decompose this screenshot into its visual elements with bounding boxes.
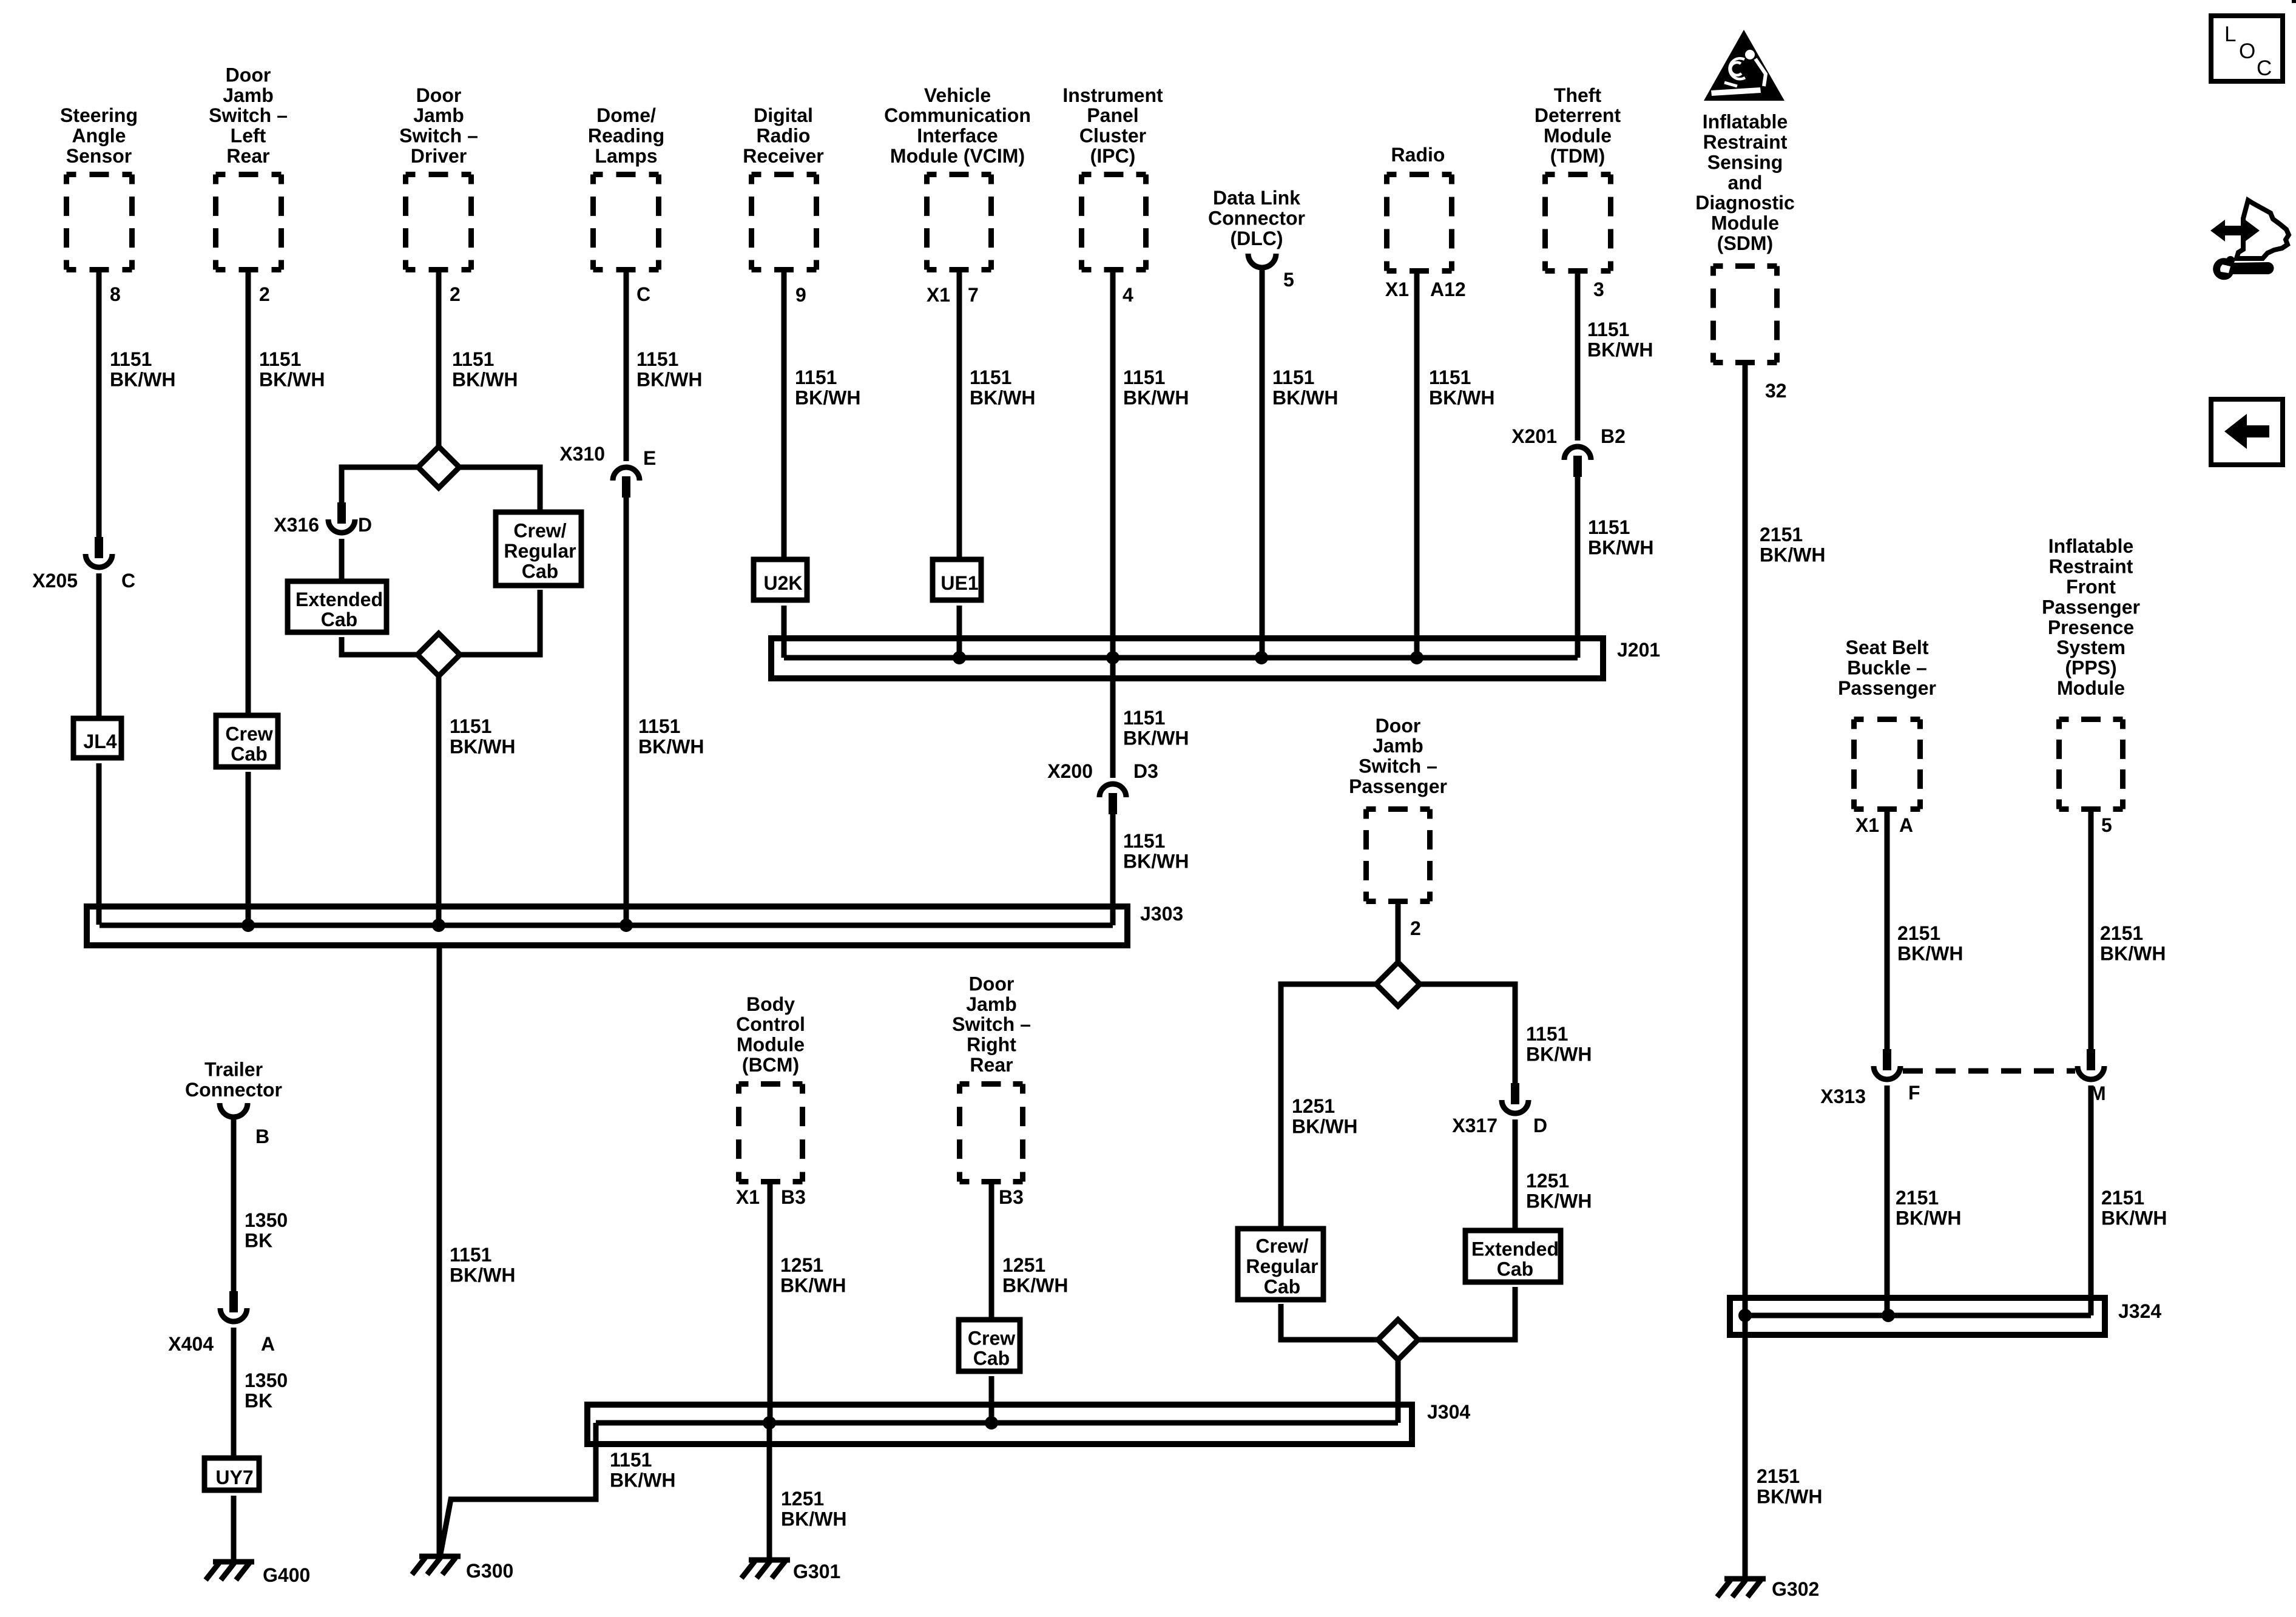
svg-text:X205: X205: [32, 570, 78, 592]
wire right rear to crew cab 2: [989, 1184, 994, 1319]
svg-text:1251: 1251: [780, 1254, 823, 1276]
wire PPS to X313 M: [2088, 812, 2094, 1049]
svg-text:L: L: [2224, 22, 2236, 46]
svg-text:2: 2: [1410, 917, 1421, 939]
svg-text:C: C: [121, 570, 135, 592]
wire crew/regular cab 2 to merge diamond: [1281, 1304, 1378, 1340]
svg-text:C: C: [636, 283, 650, 305]
svg-text:Passenger: Passenger: [1349, 775, 1447, 797]
svg-text:BK/WH: BK/WH: [259, 368, 325, 390]
svg-text:BK/WH: BK/WH: [2101, 1207, 2167, 1229]
ground bus J324: [1730, 1298, 2105, 1335]
svg-text:G302: G302: [1772, 1578, 1819, 1600]
svg-text:Steering: Steering: [60, 104, 138, 126]
svg-text:G400: G400: [263, 1564, 310, 1586]
wire X310 to J303: [624, 498, 629, 925]
wire left rear to crew cab box: [246, 272, 251, 715]
junction J201 DLC: [1255, 651, 1268, 664]
svg-text:Jamb: Jamb: [223, 84, 274, 106]
wire J304 left end to G300: [441, 1423, 596, 1554]
svg-text:Vehicle: Vehicle: [924, 84, 991, 106]
BCM title: [736, 993, 805, 1076]
IPC title: [1062, 84, 1163, 167]
svg-text:Jamb: Jamb: [1373, 735, 1423, 757]
circuit 2151 BK/WH PPS lower: [2101, 1187, 2167, 1229]
wire dome lamps to X310: [624, 272, 629, 461]
svg-text:Diagnostic: Diagnostic: [1695, 192, 1795, 214]
svg-text:Cab: Cab: [1264, 1275, 1300, 1297]
svg-text:O: O: [2239, 39, 2255, 63]
svg-text:X316: X316: [274, 514, 319, 536]
junction J303 dome: [620, 919, 633, 932]
wire lower diamond to J303: [436, 676, 442, 925]
svg-text:X310: X310: [559, 443, 605, 465]
circuit 1151 BK/WH driver: [452, 348, 518, 390]
svg-text:Seat Belt: Seat Belt: [1846, 636, 1929, 658]
wire DLC to J201: [1260, 269, 1265, 658]
door jamb switch right rear box: [960, 1084, 1023, 1182]
option merge diamond passenger: [1378, 1320, 1418, 1360]
wire BCM to J304: [768, 1184, 773, 1423]
PPS title: [2042, 535, 2140, 699]
circuit 2151 BK/WH seat belt lower: [1896, 1187, 1961, 1229]
svg-text:1151: 1151: [970, 366, 1011, 388]
svg-text:1151: 1151: [1587, 319, 1629, 340]
svg-text:BK/WH: BK/WH: [610, 1469, 675, 1491]
wire TDM to X201: [1575, 274, 1581, 441]
circuit 2151 BK/WH PPS: [2100, 922, 2166, 964]
VCIM box: [927, 175, 991, 270]
BCM box: [739, 1084, 803, 1182]
steering angle sensor title: [60, 104, 138, 167]
svg-text:F: F: [1908, 1082, 1920, 1104]
svg-text:2: 2: [450, 283, 461, 305]
svg-text:BK: BK: [245, 1389, 272, 1411]
svg-text:Regular: Regular: [504, 540, 576, 562]
svg-text:1151: 1151: [110, 348, 152, 370]
svg-text:Crew/: Crew/: [513, 520, 566, 542]
option merge diamond lower: [417, 633, 460, 676]
svg-text:BK/WH: BK/WH: [1526, 1190, 1592, 1212]
circuit 1151 BK/WH digital radio: [795, 366, 860, 408]
ground bus J303: [87, 906, 1127, 945]
svg-text:Jamb: Jamb: [413, 104, 464, 126]
svg-text:Receiver: Receiver: [743, 145, 823, 167]
svg-text:BK/WH: BK/WH: [452, 368, 518, 390]
svg-text:Presence: Presence: [2048, 616, 2134, 638]
svg-text:Communication: Communication: [884, 104, 1031, 126]
option Extended Cab (passenger): [1465, 1230, 1561, 1282]
inline connector X313 M: [2078, 1049, 2104, 1079]
inline connector X200: [1099, 784, 1126, 814]
svg-text:Module: Module: [1544, 125, 1612, 147]
svg-text:Module: Module: [1711, 212, 1779, 234]
wire trailer to X404: [231, 1119, 237, 1291]
steering angle sensor connector box: [67, 175, 132, 270]
svg-text:Data Link: Data Link: [1213, 187, 1300, 209]
wire J201 to X200: [1110, 658, 1116, 778]
option Crew Cab (right rear): [959, 1320, 1020, 1371]
svg-text:J201: J201: [1617, 639, 1660, 661]
wire X404 to UY7: [231, 1328, 237, 1458]
svg-text:Switch –: Switch –: [1359, 755, 1437, 777]
svg-text:Deterrent: Deterrent: [1535, 104, 1621, 126]
ground G301: [741, 1560, 840, 1582]
svg-text:C: C: [2257, 56, 2272, 80]
svg-text:(PPS): (PPS): [2065, 657, 2116, 679]
svg-text:X1: X1: [736, 1186, 760, 1208]
IPC box: [1082, 175, 1146, 270]
svg-text:2151: 2151: [1757, 1465, 1800, 1487]
svg-text:1151: 1151: [636, 348, 678, 370]
circuit 1151 BK/WH below J201: [1123, 707, 1189, 749]
svg-text:Radio: Radio: [1391, 144, 1445, 166]
door jamb switch driver title: [399, 84, 478, 167]
circuit 1251 BK/WH to G301: [781, 1488, 846, 1530]
svg-text:Regular: Regular: [1246, 1255, 1318, 1277]
svg-text:UE1: UE1: [940, 572, 978, 594]
inline connector X404: [220, 1291, 247, 1322]
svg-text:BK/WH: BK/WH: [1123, 387, 1189, 408]
wire X313 M to J324: [2088, 1085, 2094, 1315]
wire X316 to extended cab: [339, 539, 345, 581]
wire driver to splice diamond: [436, 272, 442, 447]
svg-text:A: A: [1899, 814, 1913, 836]
seat belt buckle passenger box: [1854, 720, 1920, 809]
svg-text:BK/WH: BK/WH: [110, 368, 175, 390]
svg-text:(BCM): (BCM): [742, 1054, 799, 1076]
svg-text:Switch –: Switch –: [952, 1013, 1031, 1035]
svg-text:Switch –: Switch –: [399, 125, 478, 147]
svg-text:Crew/: Crew/: [1255, 1235, 1308, 1257]
svg-text:X200: X200: [1047, 760, 1093, 782]
DLC title: [1208, 187, 1305, 249]
junction J303 driver: [432, 919, 445, 932]
svg-text:Instrument: Instrument: [1062, 84, 1163, 106]
svg-text:BK/WH: BK/WH: [1292, 1115, 1357, 1137]
door jamb switch left rear title: [209, 64, 288, 167]
svg-text:B3: B3: [999, 1186, 1024, 1208]
svg-text:1151: 1151: [450, 715, 491, 737]
svg-text:(IPC): (IPC): [1090, 145, 1136, 167]
svg-text:Restraint: Restraint: [1703, 131, 1788, 153]
door jamb switch left rear box: [216, 175, 282, 270]
svg-text:A12: A12: [1430, 279, 1466, 300]
svg-text:Right: Right: [967, 1034, 1016, 1056]
svg-text:1151: 1151: [638, 715, 680, 737]
inline connector X317: [1502, 1083, 1528, 1113]
svg-text:X1: X1: [927, 284, 950, 306]
svg-text:3: 3: [1593, 279, 1604, 300]
svg-text:1151: 1151: [1123, 707, 1165, 729]
inline connector X205: [86, 537, 112, 567]
svg-text:1151: 1151: [1429, 366, 1471, 388]
inline connector X316: [328, 502, 355, 533]
svg-text:Angle: Angle: [72, 125, 126, 147]
circuit 1151 BK/WH DLC: [1272, 366, 1338, 408]
svg-text:Cab: Cab: [973, 1348, 1010, 1369]
svg-text:BK/WH: BK/WH: [1588, 536, 1653, 558]
svg-text:Buckle –: Buckle –: [1847, 657, 1927, 679]
option Extended Cab (driver): [288, 581, 387, 632]
svg-text:Jamb: Jamb: [966, 993, 1017, 1015]
svg-text:BK/WH: BK/WH: [780, 1274, 846, 1296]
wire extended cab to lower diamond: [342, 637, 417, 655]
svg-text:BK: BK: [245, 1229, 272, 1251]
svg-text:BK/WH: BK/WH: [1896, 1207, 1961, 1229]
svg-text:(DLC): (DLC): [1230, 228, 1283, 249]
wire X200 to J303: [1110, 812, 1116, 925]
dome reading lamps title: [588, 104, 664, 167]
wire X205 to JL4: [96, 573, 102, 718]
wire SDM to J324: [1743, 365, 1748, 1315]
svg-text:Cab: Cab: [522, 560, 558, 582]
wire diamond to crew/regular cab: [459, 467, 540, 511]
svg-text:BK/WH: BK/WH: [636, 368, 702, 390]
svg-text:Door: Door: [226, 64, 271, 86]
SRS warning triangle icon: [1704, 30, 1784, 101]
svg-text:1151: 1151: [452, 348, 494, 370]
TDM title: [1535, 84, 1621, 167]
svg-text:(SDM): (SDM): [1717, 232, 1773, 254]
junction J201 IPC: [1106, 651, 1119, 664]
svg-text:G300: G300: [466, 1560, 513, 1582]
ground bus J304: [587, 1405, 1412, 1444]
svg-text:Module: Module: [2057, 677, 2125, 699]
junction J304 crew cab: [985, 1416, 998, 1430]
svg-text:E: E: [643, 447, 656, 469]
circuit 1151 BK/WH steering: [110, 348, 175, 390]
svg-text:Cab: Cab: [321, 609, 357, 630]
svg-text:1251: 1251: [1002, 1254, 1045, 1276]
svg-text:BK/WH: BK/WH: [1123, 850, 1189, 872]
svg-text:Control: Control: [736, 1013, 805, 1035]
wire diamond to X316 branch: [342, 467, 418, 502]
svg-text:Switch –: Switch –: [209, 104, 288, 126]
wire SDM ground leg to G302: [1743, 1315, 1748, 1579]
svg-text:Rear: Rear: [970, 1054, 1013, 1076]
svg-text:UY7: UY7: [215, 1467, 253, 1488]
wire extended cab 2 to merge diamond: [1418, 1287, 1515, 1340]
svg-text:X404: X404: [168, 1333, 214, 1355]
dome reading lamps box: [593, 175, 659, 270]
svg-text:Driver: Driver: [411, 145, 467, 167]
wire diamond to X317: [1420, 984, 1515, 1083]
svg-text:J303: J303: [1140, 903, 1183, 925]
wire radio to J201: [1414, 274, 1420, 658]
junction J201 VCIM: [953, 651, 966, 664]
svg-text:Passenger: Passenger: [1838, 677, 1936, 699]
digital radio receiver title: [743, 104, 823, 167]
wire X317 to extended cab 2: [1513, 1119, 1518, 1230]
svg-text:BK/WH: BK/WH: [1587, 339, 1653, 360]
svg-text:Door: Door: [969, 973, 1015, 994]
svg-text:1151: 1151: [610, 1449, 652, 1471]
svg-text:2151: 2151: [1760, 524, 1803, 545]
option split diamond passenger: [1376, 962, 1420, 1006]
wire diamond to crew/regular cab 2: [1281, 984, 1376, 1227]
svg-text:Body: Body: [746, 993, 795, 1015]
circuit 1251 BK/WH BCM: [780, 1254, 846, 1296]
svg-text:1151: 1151: [1272, 366, 1314, 388]
svg-text:J324: J324: [2118, 1300, 2161, 1322]
svg-text:BK/WH: BK/WH: [1897, 942, 1963, 964]
wire crew cab 2 to J304: [989, 1376, 994, 1423]
circuit 2151 BK/WH SDM: [1760, 524, 1825, 565]
svg-text:Dome/: Dome/: [596, 104, 656, 126]
option split diamond upper: [418, 447, 459, 488]
svg-text:Digital: Digital: [754, 104, 813, 126]
svg-text:Theft: Theft: [1554, 84, 1602, 106]
svg-text:2151: 2151: [1896, 1187, 1939, 1209]
svg-text:Extended: Extended: [1471, 1238, 1559, 1260]
svg-text:2: 2: [259, 283, 270, 305]
wire digital radio to U2K: [782, 272, 787, 559]
svg-text:G301: G301: [793, 1561, 840, 1582]
svg-text:Trailer: Trailer: [204, 1059, 263, 1081]
svg-text:Door: Door: [416, 84, 462, 106]
service/diagnostic icon (arrow, panel outline, wrench): [2210, 200, 2289, 280]
svg-text:U2K: U2K: [763, 572, 802, 594]
door jamb switch driver box: [406, 175, 471, 270]
svg-text:B: B: [255, 1126, 269, 1147]
svg-text:2151: 2151: [1897, 922, 1940, 944]
svg-text:9: 9: [795, 284, 806, 306]
circuit 2151 BK/WH seat belt: [1897, 922, 1963, 964]
trailer connector title: [185, 1059, 282, 1101]
svg-text:32: 32: [1765, 380, 1787, 402]
circuit 1350 BK trailer: [245, 1209, 288, 1251]
radio title: [1391, 144, 1445, 166]
door jamb switch right rear title: [952, 973, 1031, 1076]
svg-text:Extended: Extended: [295, 589, 383, 610]
svg-text:5: 5: [1283, 269, 1294, 291]
wire UE1 to J201: [957, 606, 962, 658]
junction J324 SDM: [1738, 1309, 1752, 1322]
wire IPC to J201: [1110, 272, 1116, 658]
svg-text:4: 4: [1123, 284, 1133, 306]
junction J201 radio: [1410, 651, 1423, 664]
svg-text:BK/WH: BK/WH: [970, 387, 1035, 408]
svg-text:1251: 1251: [1526, 1170, 1569, 1192]
svg-text:Reading: Reading: [588, 125, 664, 147]
svg-text:5: 5: [2101, 814, 2112, 836]
svg-text:B3: B3: [781, 1186, 806, 1208]
svg-text:Cab: Cab: [231, 743, 267, 765]
radio box: [1387, 175, 1452, 271]
VCIM title: [884, 84, 1031, 167]
back arrow box icon: [2211, 399, 2283, 465]
seat belt buckle passenger title: [1838, 636, 1936, 699]
svg-text:1151: 1151: [1123, 366, 1165, 388]
circuit 1151 BK/WH TDM lower: [1588, 516, 1653, 558]
svg-text:BK/WH: BK/WH: [638, 735, 704, 757]
svg-text:BK/WH: BK/WH: [781, 1508, 846, 1530]
wire seat belt to X313 F: [1885, 812, 1890, 1049]
svg-text:1251: 1251: [781, 1488, 824, 1510]
svg-text:BK/WH: BK/WH: [1272, 387, 1338, 408]
svg-text:X201: X201: [1511, 425, 1557, 447]
svg-text:8: 8: [110, 283, 121, 305]
svg-text:Crew: Crew: [968, 1327, 1015, 1349]
inline connector X310: [613, 467, 640, 498]
ground G302: [1717, 1578, 1819, 1600]
svg-text:B2: B2: [1601, 425, 1626, 447]
wire UY7 to G400: [231, 1496, 237, 1562]
svg-text:Radio: Radio: [757, 125, 811, 147]
svg-text:1151: 1151: [1588, 516, 1630, 538]
circuit 1251 BK/WH right rear: [1002, 1254, 1068, 1296]
circuit 1151 BK/WH IPC: [1123, 366, 1189, 408]
wire X313 F to J324: [1885, 1085, 1890, 1315]
svg-text:X313: X313: [1820, 1085, 1866, 1107]
svg-text:BK/WH: BK/WH: [450, 1264, 515, 1286]
svg-text:1151: 1151: [1123, 830, 1165, 852]
svg-text:Connector: Connector: [185, 1079, 282, 1101]
inline connector X313 F: [1874, 1049, 1900, 1079]
svg-text:Rear: Rear: [226, 145, 269, 167]
door jamb switch passenger box: [1366, 809, 1430, 902]
svg-text:D: D: [1533, 1115, 1547, 1136]
svg-text:JL4: JL4: [83, 731, 116, 752]
svg-text:1151: 1151: [450, 1244, 491, 1266]
svg-text:Module (VCIM): Module (VCIM): [890, 145, 1025, 167]
option Crew Cab (left rear): [216, 715, 278, 767]
option JL4: [73, 718, 121, 758]
svg-text:D3: D3: [1133, 760, 1158, 782]
circuit 1151 BK/WH above J303: [1123, 830, 1189, 872]
circuit 1151 BK/WH driver to J303: [450, 715, 515, 757]
svg-text:Sensing: Sensing: [1707, 151, 1783, 173]
svg-text:Passenger: Passenger: [2042, 596, 2140, 618]
connector face trailer: [220, 1103, 248, 1117]
inline connector X201: [1564, 447, 1591, 477]
option U2K: [754, 559, 807, 600]
svg-text:1251: 1251: [1292, 1095, 1335, 1117]
circuit 1151 BK/WH dome lower: [638, 715, 704, 757]
svg-text:A: A: [261, 1333, 275, 1355]
option Crew/Regular Cab (driver): [496, 512, 581, 586]
door jamb switch passenger title: [1349, 715, 1447, 797]
dashed connector tie X313: [1903, 1068, 2075, 1074]
svg-text:X1: X1: [1385, 279, 1409, 300]
svg-text:X1: X1: [1855, 814, 1879, 836]
svg-text:and: and: [1728, 172, 1763, 194]
circuit 1151 BK/WH to G300: [610, 1449, 675, 1491]
svg-text:Crew: Crew: [225, 723, 272, 744]
wire JL4 to J303: [96, 763, 102, 925]
circuit 1350 BK trailer lower: [245, 1369, 288, 1411]
svg-text:BK/WH: BK/WH: [795, 387, 860, 408]
wire U2K to J201: [782, 606, 787, 658]
wire passenger to diamond: [1396, 904, 1401, 962]
svg-text:7: 7: [968, 284, 979, 306]
svg-text:BK/WH: BK/WH: [1757, 1485, 1822, 1507]
junction J304 BCM: [763, 1416, 776, 1430]
svg-text:System: System: [2056, 636, 2125, 658]
svg-text:Restraint: Restraint: [2049, 556, 2133, 578]
page corner mark: [2292, 0, 2296, 3]
circuit 2151 BK/WH to G302: [1757, 1465, 1822, 1507]
svg-text:Left: Left: [231, 125, 266, 147]
wire crew/regular cab to lower diamond: [460, 590, 540, 655]
ground bus J201: [771, 638, 1603, 678]
circuit 1151 BK/WH dome: [636, 348, 702, 390]
wire steering angle sensor to X205: [96, 272, 102, 537]
svg-text:2151: 2151: [2101, 1187, 2144, 1209]
svg-text:2151: 2151: [2100, 922, 2143, 944]
svg-text:1151: 1151: [1526, 1023, 1568, 1045]
